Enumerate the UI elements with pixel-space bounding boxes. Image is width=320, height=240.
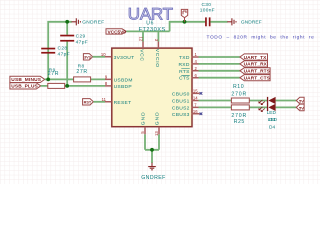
svg-text:CBUS2: CBUS2 — [172, 105, 190, 111]
svg-text:47pF: 47pF — [76, 40, 89, 46]
svg-text:15: 15 — [193, 89, 198, 94]
svg-text:VCC: VCC — [139, 49, 145, 61]
svg-text:UART_RTS: UART_RTS — [244, 69, 271, 75]
power symbol GNDREF top-left — [72, 18, 81, 25]
svg-text:R10: R10 — [233, 84, 244, 90]
global label right tag 1 — [296, 97, 304, 104]
svg-text:5V: 5V — [299, 106, 304, 111]
global label USB_MINUS — [10, 76, 45, 83]
power label VCC5V0 — [106, 29, 126, 36]
pin names bottom rotated — [141, 111, 161, 125]
svg-text:27R: 27R — [48, 71, 59, 77]
global label UART_TX — [240, 54, 268, 61]
pin names left — [114, 55, 135, 106]
svg-text:FT230XS: FT230XS — [139, 27, 166, 33]
LED D4 — [259, 104, 276, 131]
svg-text:270R: 270R — [231, 91, 247, 97]
svg-text:USB_PLUS: USB_PLUS — [11, 84, 38, 90]
wire RESET — [93, 101, 105, 103]
overlines on UART_RTS / UART_CTS label texts — [259, 69, 269, 76]
wire CBUS1 row — [199, 100, 297, 102]
power flag — [181, 9, 187, 21]
wire USB_PLUS — [41, 85, 105, 87]
svg-text:TODO – 820R might be the: TODO – 820R might be the right re — [207, 35, 315, 41]
svg-text:CBUS3: CBUS3 — [172, 112, 190, 118]
resistor R10 — [231, 84, 249, 103]
svg-text:U6: U6 — [146, 21, 154, 27]
svg-text:UART_CTS: UART_CTS — [244, 76, 271, 82]
pin numbers right — [193, 52, 198, 114]
wire C29 branch — [66, 22, 68, 86]
wire VCC5V0 net — [126, 22, 205, 42]
svg-text:10: 10 — [101, 52, 106, 57]
svg-text:VCCIO: VCCIO — [154, 49, 160, 68]
no-connect CBUS0 — [200, 92, 203, 95]
wire GNDREF top-left net — [48, 22, 72, 80]
svg-text:100nF: 100nF — [200, 8, 215, 14]
svg-text:3V3OUT: 3V3OUT — [114, 55, 135, 61]
svg-text:USB_MINUS: USB_MINUS — [11, 77, 41, 83]
svg-text:RTS: RTS — [179, 69, 190, 75]
svg-text:RXD: RXD — [178, 62, 189, 68]
wire 3V3OUT — [93, 56, 105, 58]
svg-text:GNDREF: GNDREF — [241, 19, 262, 25]
svg-text:GNDREF: GNDREF — [82, 20, 104, 26]
global label UART_RTS — [240, 68, 271, 75]
svg-text:CBUS0: CBUS0 — [172, 91, 190, 97]
pin stubs bottom (red) — [145, 127, 159, 135]
svg-text:C29: C29 — [76, 34, 86, 40]
svg-text:27R: 27R — [76, 69, 87, 75]
svg-text:GNDREF: GNDREF — [141, 175, 166, 181]
capacitor C29 — [60, 34, 88, 46]
junction GND — [150, 148, 154, 152]
wires TXD/RXD/RTS/CTS — [199, 57, 240, 78]
global label UART_CTS — [240, 75, 271, 82]
no-connect CBUS3 — [200, 113, 203, 116]
wire GND bottom — [145, 134, 159, 163]
IC U6 FT230XS body — [112, 21, 192, 127]
svg-text:16: 16 — [193, 109, 198, 114]
svg-text:3V3: 3V3 — [84, 56, 91, 60]
svg-text:USBDP: USBDP — [114, 84, 132, 90]
resistor R8 — [74, 63, 91, 82]
svg-text:UART_RX: UART_RX — [244, 62, 268, 68]
svg-text:11: 11 — [102, 97, 107, 102]
LED D3 — [259, 97, 278, 123]
junction C28/USB_MINUS — [46, 78, 50, 82]
svg-text:USBDM: USBDM — [114, 77, 133, 83]
svg-text:GND: GND — [155, 111, 161, 125]
pin numbers top/bottom rotated — [139, 37, 160, 137]
junction PWR_FLAG — [183, 20, 187, 24]
pin stubs right (red) — [192, 57, 200, 114]
global label RESET tag — [83, 99, 94, 105]
wire C30 to GNDREF — [210, 21, 227, 23]
wire USB_MINUS — [45, 78, 105, 80]
global label USB_PLUS — [10, 83, 41, 90]
svg-text:UART_TX: UART_TX — [244, 55, 268, 61]
svg-text:LED: LED — [267, 110, 277, 116]
svg-text:D3: D3 — [269, 117, 275, 123]
svg-text:CBUS1: CBUS1 — [172, 98, 190, 104]
pin names top rotated — [139, 49, 160, 68]
svg-text:D4: D4 — [269, 124, 275, 130]
pin stubs top (red) — [143, 42, 158, 49]
power symbol GNDREF top-right — [227, 18, 236, 25]
svg-text:14: 14 — [193, 96, 198, 101]
resistor R9 — [48, 67, 65, 88]
svg-text:R25: R25 — [234, 119, 245, 125]
note TODO — [207, 35, 315, 41]
wire CBUS2 row — [199, 106, 297, 108]
svg-text:12: 12 — [139, 37, 144, 42]
svg-text:RESET: RESET — [114, 100, 132, 106]
svg-text:TXD: TXD — [179, 55, 190, 61]
svg-text:GND: GND — [141, 111, 147, 125]
junction C29/USB_PLUS — [65, 84, 69, 88]
svg-text:VCC5V0: VCC5V0 — [108, 29, 127, 35]
svg-text:C28: C28 — [58, 45, 68, 51]
global label right tag 2 — [296, 104, 304, 111]
svg-text:5V: 5V — [299, 99, 304, 104]
pin numbers left — [101, 52, 108, 102]
global label 3V3OUT tag — [83, 54, 92, 60]
pin names right — [172, 55, 190, 118]
svg-text:47pF: 47pF — [58, 51, 71, 57]
svg-text:C30: C30 — [202, 2, 212, 8]
capacitor C28 — [41, 45, 70, 57]
pin stubs left (red) — [105, 57, 112, 102]
power symbol GNDREF bottom — [148, 163, 156, 170]
svg-text:RST: RST — [84, 101, 92, 105]
overlines RTS CTS pin names — [181, 69, 189, 76]
resistor R25 — [231, 105, 249, 125]
title UART — [128, 5, 173, 24]
svg-text:CTS: CTS — [179, 76, 190, 82]
junction at C29 top — [65, 20, 69, 24]
capacitor C30 — [200, 2, 215, 26]
global label UART_RX — [240, 61, 268, 68]
